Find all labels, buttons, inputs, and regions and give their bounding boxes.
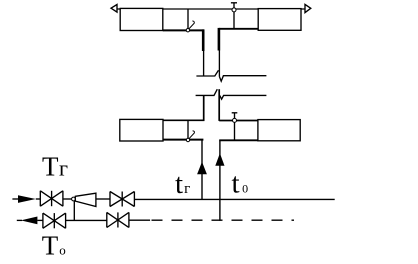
bottom connection pipe floor2-left bbox=[163, 139, 203, 141]
floor2 right supply line bbox=[219, 120, 258, 122]
air tap symbol (top floor) bbox=[231, 3, 237, 12]
bottom connection pipe top-left bbox=[163, 29, 204, 31]
elevator nozzle circle bbox=[72, 197, 76, 201]
flow arrow t-g bbox=[197, 162, 207, 174]
return flow arrow (filled left) bbox=[21, 217, 38, 225]
return line solid start bbox=[129, 219, 150, 221]
return main line (dashed) bbox=[152, 219, 295, 221]
svg-text:tг: tг bbox=[175, 168, 190, 200]
bottom connection pipe floor2-right bbox=[219, 139, 258, 141]
gate valve supply 1 bbox=[40, 191, 63, 206]
riser 1 upper (thick then thin) bbox=[202, 29, 205, 51]
wire valve to elevator bbox=[63, 198, 72, 200]
wire elevator to valve 2 bbox=[96, 198, 110, 200]
left hollow arrow bbox=[111, 5, 117, 13]
return outlet stub bbox=[17, 219, 22, 221]
top supply line bbox=[117, 8, 305, 10]
flow arrow t-0 bbox=[215, 153, 224, 166]
floor2 left supply line bbox=[163, 119, 204, 121]
svg-text:t0: t0 bbox=[232, 167, 249, 199]
svg-text:Tо: Tо bbox=[42, 231, 66, 261]
radiator top-left bbox=[120, 8, 163, 30]
gate valve return 1 bbox=[43, 213, 66, 228]
right hollow arrow bbox=[305, 4, 311, 12]
gate valve return 2 bbox=[107, 212, 129, 227]
riser 1 between break 2 and floor 2 bbox=[203, 95, 205, 121]
riser 1 lower bbox=[201, 140, 203, 200]
gate valve supply 2 bbox=[110, 192, 134, 207]
elevator suction pipe bbox=[73, 201, 75, 221]
radiator floor2-left bbox=[120, 119, 163, 141]
air tap symbol (floor 2) bbox=[232, 113, 238, 123]
drop pipe to valve (floor 2) bbox=[187, 121, 189, 138]
riser 2 between break 2 and floor 2 bbox=[218, 89, 220, 121]
supply inlet stub bbox=[12, 198, 18, 200]
bottom connection pipe top-right bbox=[219, 28, 258, 30]
radiator control valve (floor 2) bbox=[186, 131, 194, 142]
riser 2 upper (thick then thin) bbox=[218, 28, 221, 51]
elevator cone bbox=[75, 193, 96, 206]
main supply line (solid) bbox=[134, 198, 334, 200]
wire valve R1 to valve R2 bbox=[66, 219, 107, 221]
drop pipe right (top floor) bbox=[233, 12, 235, 29]
radiator top-right bbox=[258, 9, 301, 31]
svg-text:Tг: Tг bbox=[42, 152, 68, 182]
radiator control valve (top floor) bbox=[186, 21, 194, 32]
drop pipe to valve (top floor) bbox=[187, 9, 189, 29]
drop pipe right (floor 2) bbox=[234, 122, 236, 139]
break line 1 bbox=[196, 70, 218, 76]
supply flow arrow (filled right) bbox=[18, 195, 36, 203]
radiator floor2-right bbox=[258, 120, 300, 141]
wire to valve T1 bbox=[36, 198, 41, 200]
wire to valve R1 bbox=[37, 219, 43, 221]
riser 2 lower bbox=[219, 140, 221, 221]
break line 2 bbox=[196, 89, 218, 95]
